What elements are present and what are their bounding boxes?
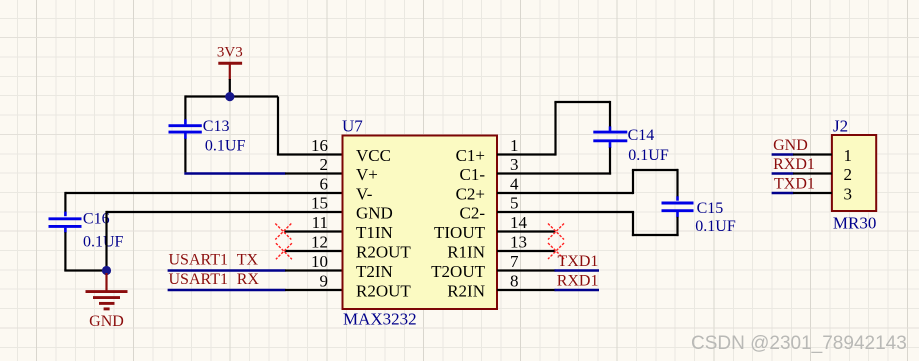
ground GND	[86, 273, 128, 330]
svg-text:VCC: VCC	[356, 146, 391, 165]
svg-text:GND: GND	[89, 313, 124, 330]
svg-text:2: 2	[320, 155, 329, 174]
op-amp U7 MAX3232 body	[343, 136, 498, 310]
svg-text:J2: J2	[833, 116, 848, 135]
wire down to C15	[676, 169, 678, 197]
connector J2 body	[832, 135, 876, 211]
pin 9 stub	[285, 289, 343, 291]
svg-text:MAX3232: MAX3232	[343, 310, 417, 329]
capacitor C15	[662, 196, 736, 235]
wire down to C14	[609, 101, 611, 127]
wire pin15 down to GND	[105, 211, 107, 271]
svg-text:3V3: 3V3	[217, 45, 243, 61]
svg-text:MR30: MR30	[833, 214, 876, 233]
pin 5 stub + wire	[497, 211, 634, 213]
J2 pin wire RXD1	[793, 172, 832, 174]
J2 pin wire TXD1	[793, 192, 832, 194]
svg-text:10: 10	[311, 252, 328, 271]
svg-text:C13: C13	[203, 118, 230, 135]
svg-text:T2IN: T2IN	[356, 262, 393, 281]
svg-text:4: 4	[510, 174, 519, 193]
wire top horizontal	[185, 95, 278, 97]
svg-text:V+: V+	[356, 165, 378, 184]
svg-text:0.1UF: 0.1UF	[628, 147, 669, 164]
pin 14 stub	[497, 230, 556, 232]
svg-text:GND: GND	[773, 137, 808, 154]
svg-text:0.1UF: 0.1UF	[83, 233, 124, 250]
svg-text:0.1UF: 0.1UF	[695, 218, 736, 235]
wire USART1 TX (navy)	[168, 269, 286, 272]
svg-text:12: 12	[311, 232, 328, 251]
pin 1 stub + wire	[497, 153, 556, 155]
svg-text:C1+: C1+	[456, 146, 485, 165]
wire 3V3 stem	[229, 79, 231, 97]
svg-text:7: 7	[510, 252, 519, 271]
pin 12 stub	[285, 250, 343, 252]
svg-text:GND: GND	[356, 203, 393, 222]
svg-text:TXD1: TXD1	[558, 253, 599, 270]
wire C14 bottom	[609, 148, 611, 175]
wire C15 bottom	[676, 217, 678, 236]
pin 11 stub	[285, 230, 343, 232]
svg-text:T1IN: T1IN	[356, 223, 393, 242]
wire C16 bottom	[64, 232, 66, 270]
pin 13 stub	[497, 250, 556, 252]
svg-text:11: 11	[312, 213, 328, 232]
svg-text:CSDN @2301_78942143: CSDN @2301_78942143	[691, 333, 907, 354]
svg-text:14: 14	[510, 213, 528, 232]
wire C2- down	[632, 212, 634, 236]
svg-text:V-: V-	[356, 184, 373, 203]
capacitor C14	[593, 126, 669, 164]
wire C2- bottom horizontal	[632, 234, 679, 236]
wire C13 bottom	[184, 139, 186, 173]
wire C1+ top horizontal	[554, 101, 610, 103]
svg-text:RXD1: RXD1	[773, 156, 815, 173]
J2 pin wire GND	[793, 153, 832, 155]
svg-text:USART1TX: USART1TX	[169, 251, 259, 268]
svg-text:2: 2	[844, 165, 853, 184]
wire GND pin 15 horizontal	[107, 211, 343, 213]
svg-text:R2OUT: R2OUT	[356, 281, 411, 300]
svg-text:RXD1: RXD1	[557, 273, 599, 290]
svg-text:13: 13	[510, 232, 527, 251]
svg-text:R2OUT: R2OUT	[356, 242, 411, 261]
svg-text:5: 5	[510, 193, 519, 212]
wire TXD1 (navy)	[555, 269, 600, 272]
svg-text:15: 15	[311, 193, 328, 212]
power symbol 3V3	[217, 45, 243, 81]
svg-text:TIOUT: TIOUT	[434, 223, 486, 242]
wire RXD1 (navy)	[555, 289, 600, 292]
svg-text:9: 9	[320, 271, 329, 290]
no-ERC marker pin 13	[548, 243, 564, 259]
capacitor C16	[49, 210, 124, 250]
node junction GND	[102, 266, 111, 275]
wire V- horizontal pin 6	[65, 192, 342, 194]
svg-text:3: 3	[510, 155, 519, 174]
svg-text:1: 1	[510, 136, 519, 155]
wire V- down to C16	[64, 192, 66, 212]
capacitor C13	[169, 118, 246, 155]
wire C1+ up	[554, 102, 556, 156]
wire GND stub (navy)	[772, 153, 794, 156]
svg-text:R1IN: R1IN	[447, 242, 485, 261]
wire USART1 RX (navy)	[168, 289, 286, 292]
svg-text:C1-: C1-	[460, 165, 486, 184]
svg-text:C2-: C2-	[460, 203, 486, 222]
no-ERC marker pin 12	[276, 243, 292, 259]
wire C2+ up	[632, 170, 634, 194]
svg-text:3: 3	[844, 184, 853, 203]
no-ERC marker pin 11	[275, 224, 291, 240]
wire TXD1 stub (navy)	[772, 192, 794, 195]
pin 10 stub	[285, 269, 343, 271]
pin 3 stub + wire to C14	[497, 172, 611, 174]
pin 2 stub	[285, 172, 343, 174]
wire VCC horizontal to pin 16	[277, 153, 343, 155]
wire V+ net (navy)	[184, 172, 285, 175]
wire RXD1 stub (navy)	[772, 172, 794, 175]
svg-text:6: 6	[320, 174, 329, 193]
wire VCC vertical	[277, 97, 279, 155]
wire C2+ top horizontal	[632, 169, 678, 171]
no-ERC marker pin 14	[548, 224, 564, 240]
svg-text:1: 1	[844, 146, 853, 165]
svg-text:U7: U7	[342, 116, 363, 135]
svg-text:16: 16	[311, 136, 328, 155]
svg-text:T2OUT: T2OUT	[431, 262, 485, 281]
svg-text:C14: C14	[628, 127, 655, 144]
svg-text:C15: C15	[697, 200, 724, 217]
wire to GND junction	[64, 269, 106, 271]
svg-text:8: 8	[510, 271, 519, 290]
svg-text:R2IN: R2IN	[447, 281, 485, 300]
svg-text:USART1RX: USART1RX	[169, 271, 260, 288]
svg-text:0.1UF: 0.1UF	[205, 138, 246, 155]
svg-text:C2+: C2+	[456, 184, 485, 203]
svg-text:TXD1: TXD1	[774, 175, 815, 192]
pin 7 stub	[497, 269, 556, 271]
pin 4 stub + wire	[497, 192, 633, 194]
wire to C13 top	[184, 95, 186, 119]
pin 8 stub	[497, 289, 556, 291]
node junction 3V3	[225, 92, 234, 101]
